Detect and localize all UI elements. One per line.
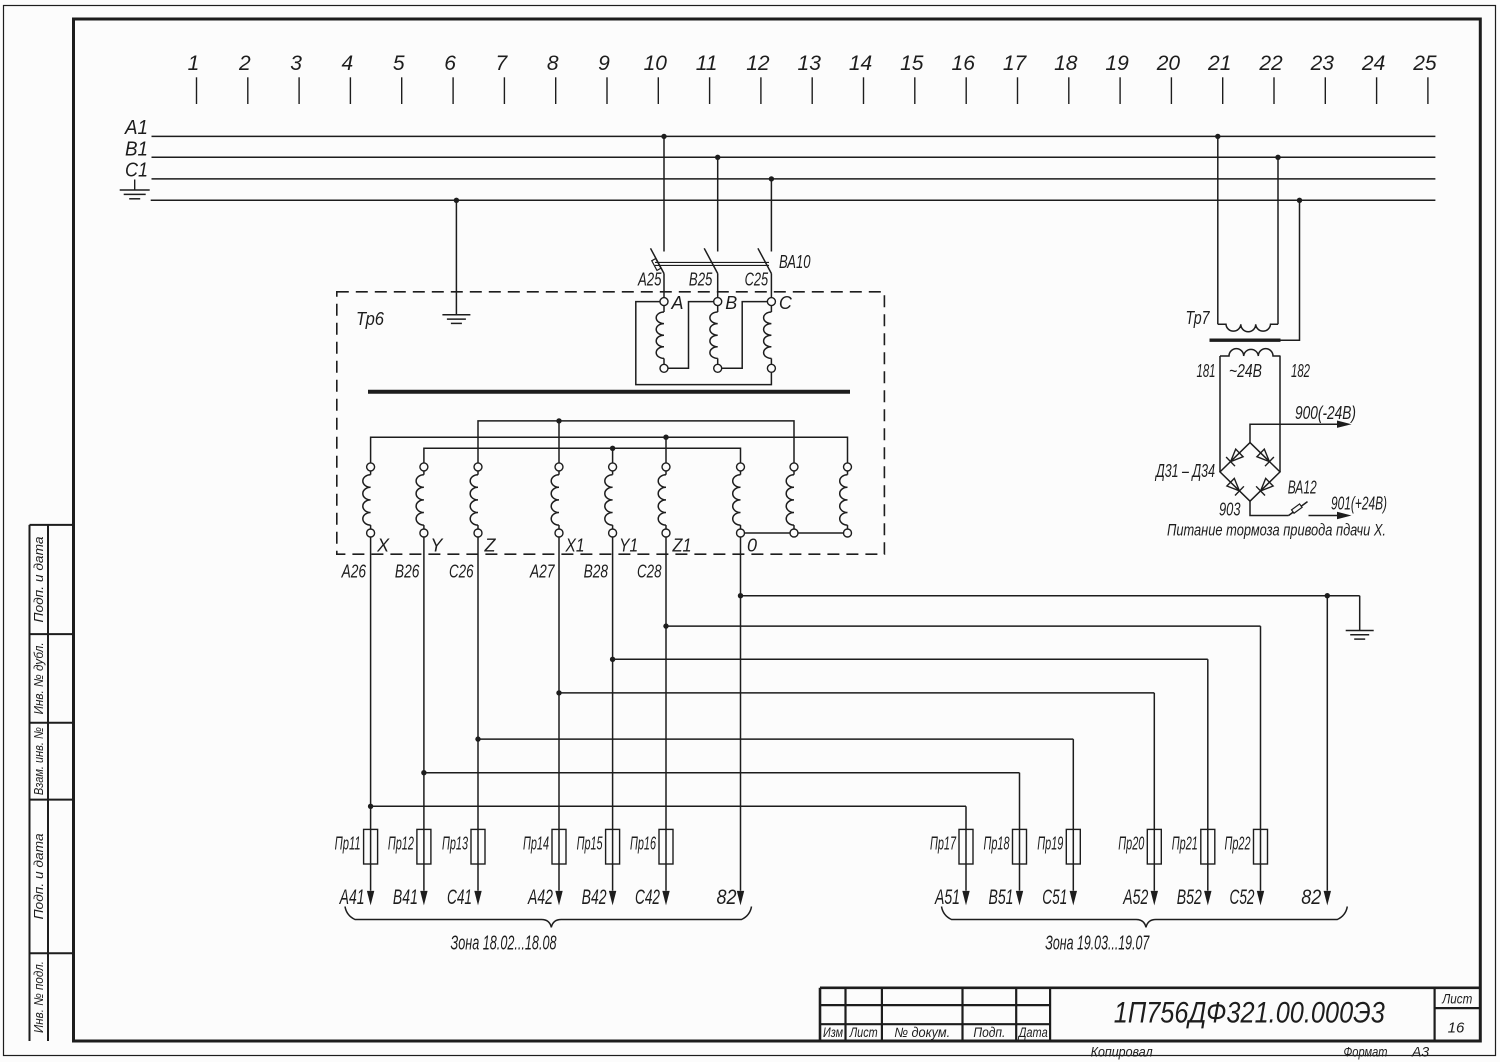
wire C1 to BA10 pole C25: [769, 176, 774, 251]
svg-text:3: 3: [290, 52, 302, 75]
breaker BA12: [1288, 478, 1317, 516]
svg-text:ВА12: ВА12: [1288, 478, 1317, 498]
wire A1 to BA10 pole A25: [661, 134, 666, 252]
svg-text:Копировал: Копировал: [1091, 1044, 1153, 1060]
label Зона 19.03...19.07: [1045, 933, 1150, 955]
svg-text:В: В: [725, 293, 737, 313]
output arrow А42: [527, 886, 563, 909]
svg-text:Пр19: Пр19: [1037, 834, 1063, 854]
svg-text:Пр14: Пр14: [523, 834, 549, 854]
svg-text:Подп. и дата: Подп. и дата: [31, 537, 46, 623]
svg-text:Пр21: Пр21: [1172, 834, 1198, 854]
wire B1 to Tr7: [1275, 155, 1280, 325]
Tr6 secondary link wire 1 (Z, X1, aux8): [478, 418, 794, 467]
svg-text:19: 19: [1105, 52, 1129, 75]
svg-text:Пр13: Пр13: [442, 834, 468, 854]
bus N (neutral): [151, 199, 1436, 201]
svg-text:А42: А42: [527, 886, 554, 909]
Tr6 primary winding С (terminal С25): [764, 274, 793, 373]
label Тр6: [356, 309, 385, 329]
svg-text:В26: В26: [395, 562, 420, 582]
wire net С28 (from winding to fuses): [637, 537, 1261, 891]
svg-text:С: С: [779, 293, 793, 313]
svg-text:Лист: Лист: [849, 1025, 878, 1040]
svg-text:С52: С52: [1230, 886, 1255, 909]
fuse Пр14: [523, 829, 566, 864]
svg-text:Изм: Изм: [823, 1025, 843, 1040]
svg-text:С1: С1: [125, 160, 148, 182]
ground at bus start: [120, 180, 150, 199]
svg-text:2: 2: [238, 52, 251, 75]
ground from bus N: [442, 198, 470, 324]
wire A1 to Tr7: [1215, 134, 1220, 325]
svg-text:~24В: ~24В: [1229, 361, 1262, 381]
fuse Пр15: [577, 829, 620, 864]
zone ruler 1-25: [188, 52, 1437, 104]
output arrow А41: [338, 886, 374, 909]
svg-text:В52: В52: [1177, 886, 1202, 909]
label Зона 18.02...18.08: [451, 933, 557, 955]
brace zone 18.02-18.08: [345, 907, 752, 928]
fuse Пр11: [335, 829, 378, 864]
svg-text:6: 6: [444, 52, 456, 75]
svg-text:Y: Y: [430, 536, 444, 556]
fuse Пр17: [930, 829, 973, 864]
svg-text:Пр16: Пр16: [630, 834, 657, 854]
svg-text:А3: А3: [1411, 1044, 1429, 1060]
svg-text:82: 82: [1301, 886, 1321, 909]
svg-text:В42: В42: [582, 886, 607, 909]
svg-text:Инв. № подл.: Инв. № подл.: [31, 961, 46, 1033]
svg-text:Лист: Лист: [1441, 992, 1472, 1007]
svg-text:82: 82: [717, 886, 737, 909]
output arrow В42: [582, 886, 617, 909]
svg-text:901(+24В): 901(+24В): [1331, 494, 1387, 514]
svg-text:А52: А52: [1122, 886, 1149, 909]
label Д31 – Д34: [1155, 461, 1215, 481]
fuse Пр18: [984, 829, 1027, 864]
wire B1 to BA10 pole B25: [715, 155, 720, 252]
breaker BA10 pole A25: [637, 248, 664, 289]
svg-text:ВА10: ВА10: [779, 252, 811, 272]
output arrow С41: [447, 886, 482, 909]
diode Д33 (lower left): [1227, 478, 1244, 495]
svg-text:А: А: [671, 293, 684, 313]
svg-text:Инв. № дубл.: Инв. № дубл.: [31, 642, 46, 714]
output arrow С42: [635, 886, 670, 909]
diode Д32 (upper right): [1257, 449, 1274, 466]
output arrow А51: [934, 886, 970, 909]
ground at net O: [1346, 596, 1374, 639]
svg-text:17: 17: [1003, 52, 1028, 75]
wire net А27 (from winding to fuses): [529, 537, 1154, 891]
Tr6 secondary winding Z: [470, 463, 496, 556]
svg-text:Пр12: Пр12: [388, 834, 414, 854]
breaker BA10 pole C25: [745, 248, 772, 289]
svg-text:16: 16: [1448, 1020, 1465, 1037]
fuse Пр16: [630, 829, 673, 864]
svg-text:Тр6: Тр6: [356, 309, 385, 329]
svg-text:Пр15: Пр15: [577, 834, 604, 854]
label 182 (terminal): [1291, 361, 1310, 381]
svg-text:13: 13: [798, 52, 822, 75]
svg-text:5: 5: [393, 52, 405, 75]
label ~24В: [1229, 361, 1262, 381]
svg-text:Зона 18.02...18.08: Зона 18.02...18.08: [451, 933, 557, 955]
fuse Пр13: [442, 829, 485, 864]
wire net В28 (from winding to fuses): [584, 537, 1208, 891]
wire net O (neutral to 82 outputs and ground): [738, 537, 1360, 891]
svg-text:20: 20: [1156, 52, 1181, 75]
svg-text:Пр17: Пр17: [930, 834, 957, 854]
Tr6 secondary link wire 2 (X, Z1, aux9): [371, 435, 848, 467]
transformer Tr7 primary winding: [1218, 324, 1278, 331]
rectifier bridge Д31-Д34 frame: [1220, 443, 1280, 502]
bus B1: [125, 138, 1435, 160]
label Тр7: [1186, 308, 1211, 328]
Tr6 secondary winding aux c8: [786, 463, 798, 537]
svg-text:Z1: Z1: [672, 536, 692, 556]
svg-text:4: 4: [342, 52, 354, 75]
svg-text:Д31 – Д34: Д31 – Д34: [1155, 461, 1215, 481]
svg-text:X: X: [376, 536, 390, 556]
Tr6 secondary winding O: [733, 463, 757, 556]
output arrow 82 (left group): [717, 886, 745, 909]
svg-text:Пр11: Пр11: [335, 834, 361, 854]
output arrow В52: [1177, 886, 1212, 909]
svg-text:7: 7: [496, 52, 509, 75]
fuse Пр19: [1037, 829, 1080, 864]
svg-text:Y1: Y1: [619, 536, 638, 556]
Tr6 secondary winding aux c9: [840, 463, 852, 537]
svg-text:В28: В28: [584, 562, 609, 582]
transformer Tr7 secondary winding ~24В: [1220, 349, 1281, 356]
svg-text:А25: А25: [637, 270, 662, 290]
label BA10: [779, 252, 811, 272]
svg-text:В51: В51: [989, 886, 1014, 909]
Tr6 core bar: [368, 390, 850, 394]
svg-text:24: 24: [1361, 52, 1385, 75]
svg-text:В25: В25: [689, 270, 713, 290]
svg-text:Питание тормоза привода пдачи: Питание тормоза привода пдачи X.: [1167, 522, 1386, 540]
svg-text:18: 18: [1054, 52, 1078, 75]
svg-text:9: 9: [598, 52, 610, 75]
Tr6 secondary winding Y: [416, 463, 444, 556]
svg-text:16: 16: [952, 52, 976, 75]
brace zone 19.03-19.07: [942, 907, 1348, 928]
bus C1: [125, 160, 1435, 182]
svg-text:1П756ДФ321.00.000Э3: 1П756ДФ321.00.000Э3: [1114, 997, 1385, 1030]
svg-text:С41: С41: [447, 886, 472, 909]
svg-text:23: 23: [1310, 52, 1335, 75]
fuse Пр20: [1118, 829, 1161, 864]
svg-text:С25: С25: [745, 270, 769, 290]
svg-text:11: 11: [696, 52, 718, 75]
wire 900(-24В) output: [1250, 421, 1352, 443]
Tr6 secondary winding Z1: [658, 463, 691, 556]
fuse Пр22: [1225, 829, 1268, 864]
diode Д31 (upper left): [1226, 449, 1243, 466]
svg-text:С42: С42: [635, 886, 660, 909]
svg-text:0: 0: [747, 536, 757, 556]
svg-text:Взам. инв. №: Взам. инв. №: [31, 727, 46, 795]
svg-text:Подп. и дата: Подп. и дата: [31, 833, 46, 919]
output arrow В41: [393, 886, 428, 909]
wire net А26 (from winding to fuses): [341, 537, 966, 891]
svg-text:С26: С26: [449, 562, 474, 582]
svg-text:181: 181: [1197, 361, 1216, 381]
svg-text:А1: А1: [124, 117, 148, 139]
svg-text:12: 12: [746, 52, 770, 75]
wire Tr7 secondary right to bridge: [1279, 356, 1281, 472]
svg-text:В41: В41: [393, 886, 418, 909]
svg-text:Дата: Дата: [1017, 1025, 1048, 1040]
svg-text:В1: В1: [125, 138, 148, 160]
svg-text:15: 15: [900, 52, 924, 75]
fuse Пр21: [1172, 829, 1215, 864]
Tr6 delta wire A-top to C-bottom: [636, 302, 772, 385]
svg-text:25: 25: [1412, 52, 1437, 75]
label 901(+24В): [1331, 494, 1387, 514]
svg-text:1: 1: [188, 52, 200, 75]
svg-text:Пр20: Пр20: [1118, 834, 1144, 854]
Tr6 secondary winding Y1: [605, 463, 638, 556]
svg-text:8: 8: [547, 52, 559, 75]
svg-text:21: 21: [1207, 52, 1231, 75]
svg-text:Пр18: Пр18: [984, 834, 1010, 854]
Tr6 delta wire B-top to A-bottom: [668, 302, 714, 369]
Tr6 secondary link wire 3 (Y, Y1, O): [424, 446, 741, 467]
wire Tr7 secondary left to bridge: [1219, 356, 1221, 472]
fuse Пр12: [388, 829, 431, 864]
svg-text:С51: С51: [1042, 886, 1067, 909]
output arrow С51: [1042, 886, 1077, 909]
Tr6 secondary winding X1: [551, 463, 584, 556]
svg-text:Пр22: Пр22: [1225, 834, 1251, 854]
output arrow В51: [989, 886, 1024, 909]
svg-text:900(-24В): 900(-24В): [1295, 403, 1356, 423]
wire net С26 (from winding to fuses): [449, 537, 1073, 891]
breaker BA10 linkage bar: [655, 262, 769, 265]
svg-text:Зона 19.03...19.07: Зона 19.03...19.07: [1045, 933, 1150, 955]
node O link to aux windings: [741, 532, 848, 534]
label 181 (terminal): [1197, 361, 1216, 381]
svg-text:22: 22: [1258, 52, 1283, 75]
Tr6 primary winding В (terminal В25): [710, 274, 737, 373]
Tr6 secondary winding X: [363, 463, 390, 556]
output arrow 82 (right group): [1301, 886, 1331, 909]
svg-text:Тр7: Тр7: [1186, 308, 1211, 328]
Tr6 primary winding А (terminal А25): [656, 274, 683, 373]
wire 901(+24В) output: [1309, 512, 1352, 519]
label 900(-24В): [1295, 403, 1356, 423]
Tr7 core bar: [1210, 339, 1281, 342]
wire net В26 (from winding to fuses): [395, 537, 1020, 891]
svg-text:14: 14: [849, 52, 872, 75]
wire node 903: [1219, 500, 1289, 520]
transformer Tr6 boundary: [337, 292, 885, 554]
caption Питание тормоза привода пдачи X.: [1167, 522, 1386, 540]
svg-text:А26: А26: [341, 562, 367, 582]
svg-text:182: 182: [1291, 361, 1310, 381]
svg-text:А41: А41: [338, 886, 364, 909]
svg-text:Подп.: Подп.: [973, 1025, 1005, 1040]
breaker BA10 pole B25: [689, 248, 718, 289]
svg-text:10: 10: [644, 52, 668, 75]
output arrow С52: [1230, 886, 1265, 909]
output arrow А52: [1122, 886, 1158, 909]
bus A1: [124, 117, 1435, 139]
svg-text:С28: С28: [637, 562, 662, 582]
svg-text:А51: А51: [934, 886, 960, 909]
Tr7 screen wire to bus N: [1281, 198, 1303, 341]
svg-text:А27: А27: [529, 562, 555, 582]
svg-text:№ докум.: № докум.: [894, 1025, 950, 1040]
Tr6 delta wire C-top to B-bottom: [722, 302, 768, 369]
svg-text:X1: X1: [565, 536, 585, 556]
svg-text:903: 903: [1219, 500, 1241, 520]
svg-text:Z: Z: [484, 536, 497, 556]
diode Д34 (lower right): [1256, 478, 1273, 495]
svg-text:Формат: Формат: [1344, 1044, 1388, 1060]
